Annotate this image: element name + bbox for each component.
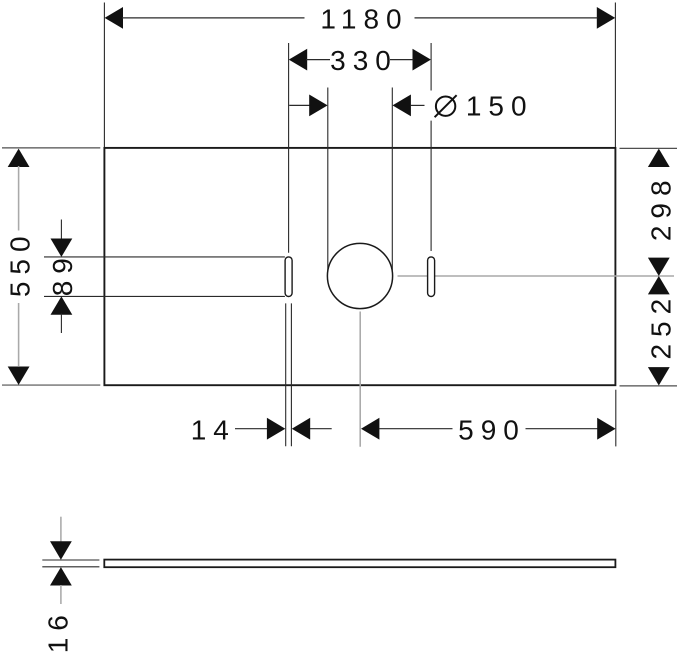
leader line dia150 right — [411, 104, 425, 106]
extension line hole right tangent — [391, 88, 393, 271]
leader 14 left — [235, 428, 267, 430]
dimension line 590 right part — [526, 428, 598, 430]
arrow 89 up — [51, 296, 73, 314]
arrow 89 down — [51, 239, 73, 257]
arrow 1180 left — [105, 7, 123, 29]
console top-view outline — [104, 148, 615, 385]
arrow 550 up — [8, 149, 30, 167]
extension line 16 bottom — [42, 566, 99, 568]
arrow 330 left — [289, 49, 307, 71]
centerline horizontal through hole — [398, 275, 675, 277]
leader 16 above — [60, 517, 62, 542]
arrow 14 left — [267, 418, 285, 440]
extension line hole left tangent — [327, 88, 329, 271]
extension line 330 right upper — [430, 43, 432, 91]
arrow 252 down — [648, 367, 670, 385]
extension line 14 slot left edge — [285, 303, 287, 446]
leader 89 below — [60, 314, 62, 334]
svg-text:252: 252 — [646, 292, 677, 360]
svg-text:298: 298 — [646, 173, 677, 241]
right slot — [428, 257, 435, 297]
extension line 590 right — [615, 390, 617, 447]
extension line 1180 right — [614, 3, 616, 148]
leader 14 right — [310, 428, 332, 430]
arrow dia150 left — [309, 95, 327, 117]
extension line 1180 left — [103, 3, 105, 148]
svg-text:550: 550 — [5, 229, 36, 297]
console side-view plate — [104, 560, 615, 568]
extension line 550 top — [2, 147, 100, 149]
dimension line 330 right part — [390, 59, 414, 61]
leader 89 above — [60, 220, 62, 241]
svg-text:16: 16 — [43, 608, 74, 653]
arrow 590 right — [597, 418, 615, 440]
arrow 550 down — [8, 367, 30, 385]
arrow 16 down — [50, 541, 72, 559]
arrow 14 right — [292, 418, 310, 440]
svg-text:14: 14 — [191, 414, 236, 445]
svg-text:150: 150 — [466, 90, 534, 121]
arrow 590 left — [361, 418, 379, 440]
leader 16 below — [60, 585, 62, 604]
arrow 298-252 bowtie lower — [648, 276, 670, 294]
extension line 16 top — [42, 559, 99, 561]
extension line 330 left / left slot centerline — [288, 43, 290, 253]
arrow 298 up — [648, 149, 670, 167]
arrow 16 up — [50, 567, 72, 585]
extension line 89 slot top — [44, 256, 285, 258]
svg-text:590: 590 — [458, 414, 526, 445]
extension line 14 slot right edge — [290, 303, 292, 446]
svg-text:1180: 1180 — [320, 3, 408, 34]
arrow dia150 right — [393, 95, 411, 117]
left slot — [285, 257, 292, 297]
extension line 330 right lower — [430, 121, 432, 251]
dimension line 590 left part — [379, 428, 452, 430]
dimension line 1180 left part — [122, 17, 305, 19]
dimension line 550 upper part — [18, 166, 20, 231]
leader line dia150 left — [289, 104, 310, 106]
faucet hole circle — [327, 243, 392, 308]
arrow 1180 right — [597, 7, 615, 29]
svg-text:330: 330 — [330, 45, 398, 76]
centerline vertical below hole — [359, 312, 361, 447]
label dia symbol — [436, 97, 455, 116]
arrow 330 right — [413, 49, 431, 71]
svg-text:89: 89 — [47, 251, 78, 296]
extension line 298 top — [620, 147, 677, 149]
extension line 89 slot bottom — [44, 295, 285, 297]
extension line 252 bottom — [620, 385, 677, 387]
arrow 298-252 bowtie upper — [648, 258, 670, 276]
dimension line 330 left part — [306, 59, 330, 61]
dimension line 1180 right part — [415, 17, 598, 19]
dimension line 550 lower part — [18, 303, 20, 367]
extension line 550 bottom — [2, 384, 100, 386]
